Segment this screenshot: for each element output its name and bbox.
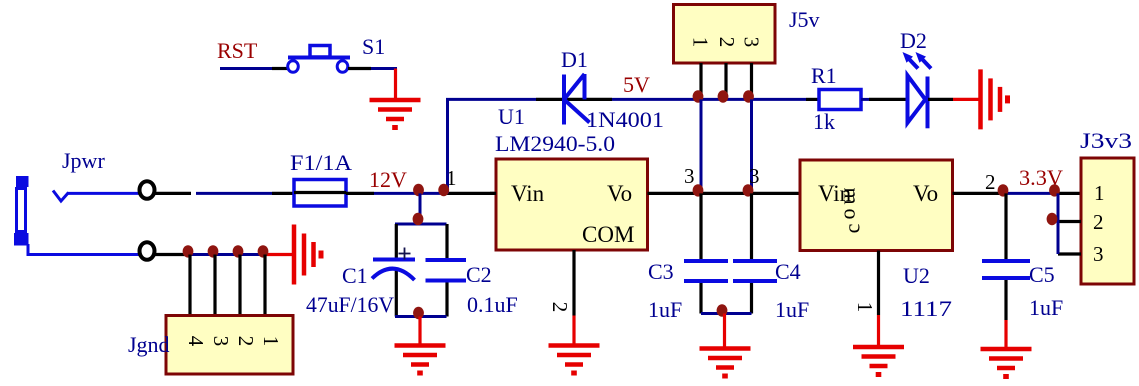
svg-text:3: 3 bbox=[749, 164, 760, 188]
ground (D2, rotated) bbox=[981, 69, 1008, 129]
svg-text:J5v: J5v bbox=[789, 7, 820, 32]
svg-text:o: o bbox=[840, 209, 865, 220]
svg-text:1: 1 bbox=[1094, 181, 1105, 205]
svg-text:Vo: Vo bbox=[913, 181, 938, 206]
connector Jpwr jack body bbox=[14, 176, 29, 246]
svg-text:3: 3 bbox=[684, 164, 695, 188]
wire J5v pin3 drop bbox=[750, 99, 753, 193]
J3v3 vertical tie wire bbox=[1057, 193, 1060, 254]
svg-text:R1: R1 bbox=[811, 63, 837, 88]
capacitor C2 branch wires bbox=[445, 224, 448, 260]
U1 left pin stub bbox=[490, 192, 496, 195]
wire J5v pin1 drop bbox=[700, 99, 703, 193]
svg-text:3: 3 bbox=[740, 37, 764, 48]
junction node (Vo rail / C4) bbox=[743, 184, 754, 196]
junction node (Vo rail / C3) bbox=[693, 184, 704, 196]
C1 plus sign bbox=[399, 248, 411, 260]
connector Jgnd box bbox=[166, 316, 293, 375]
ground (C5) bbox=[981, 349, 1032, 377]
junction node (Jgnd pin1) bbox=[258, 245, 269, 257]
svg-text:5V: 5V bbox=[623, 72, 650, 97]
svg-text:2: 2 bbox=[715, 37, 739, 48]
svg-text:F1/1A: F1/1A bbox=[290, 150, 352, 175]
J3v3 pin stubs bbox=[1058, 220, 1081, 223]
ground (U2) bbox=[853, 347, 904, 375]
svg-text:C5: C5 bbox=[1029, 262, 1055, 287]
ground (Jgnd row, rotated) bbox=[294, 225, 321, 285]
junction node (bottom bridge) bbox=[413, 307, 424, 319]
LED D2 bbox=[908, 75, 928, 128]
svg-text:U2: U2 bbox=[903, 263, 930, 288]
junction node (J3v3 pin2) bbox=[1047, 213, 1058, 225]
svg-text:1: 1 bbox=[259, 336, 283, 347]
wire bridge to ground bbox=[723, 314, 726, 350]
fuse F1 bbox=[294, 180, 346, 207]
capacitor C1 branch wires bbox=[395, 224, 398, 260]
ground (U1 COM) bbox=[549, 346, 600, 374]
connector J3v3 box bbox=[1081, 158, 1134, 284]
svg-text:47uF/16V: 47uF/16V bbox=[306, 292, 394, 317]
svg-text:Vin: Vin bbox=[511, 181, 545, 206]
svg-text:m: m bbox=[840, 187, 865, 204]
capacitor C4 bbox=[733, 261, 777, 281]
svg-text:C3: C3 bbox=[648, 259, 674, 284]
svg-text:C4: C4 bbox=[775, 259, 801, 284]
switch S1 bbox=[288, 46, 350, 73]
wire 12V riser to D1 bbox=[448, 99, 537, 193]
svg-text:2: 2 bbox=[548, 302, 572, 313]
junction node (C3/C4 bridge) bbox=[717, 304, 728, 316]
svg-text:1: 1 bbox=[689, 37, 713, 48]
svg-text:1117: 1117 bbox=[900, 296, 952, 321]
svg-text:Vo: Vo bbox=[607, 181, 632, 206]
wire switch to ground bbox=[348, 67, 371, 70]
wire into D1 bbox=[536, 98, 612, 101]
wire jack sleeve down and right bbox=[28, 244, 140, 255]
wire C1/C2 feed bbox=[419, 193, 422, 224]
ground (C3/C4) bbox=[700, 349, 751, 377]
wire C1/C2 top bridge bbox=[395, 223, 447, 226]
svg-text:0.1uF: 0.1uF bbox=[467, 292, 518, 317]
regulator U2 box bbox=[800, 160, 953, 251]
svg-text:2: 2 bbox=[985, 170, 996, 194]
capacitor C1 bbox=[372, 260, 415, 281]
junction node (top bridge) bbox=[413, 213, 424, 225]
capacitor C3 bbox=[684, 261, 728, 281]
wire D2 to ground bbox=[928, 98, 953, 101]
capacitor C2 bbox=[426, 260, 467, 281]
wire 5V to R1 bbox=[806, 98, 819, 101]
svg-text:1uF: 1uF bbox=[648, 297, 682, 322]
svg-text:c: c bbox=[840, 223, 865, 233]
LED D2 arrows bbox=[903, 52, 932, 69]
capacitor C3 wires bbox=[699, 193, 702, 261]
wire U2 Vo to J3v3 bbox=[953, 192, 1007, 195]
junction node (J5v pin3) bbox=[743, 90, 754, 102]
svg-text:S1: S1 bbox=[362, 34, 385, 59]
terminal circle bottom bbox=[140, 242, 155, 260]
svg-text:2: 2 bbox=[1093, 210, 1104, 234]
jack tip contact mark bbox=[53, 191, 69, 202]
wire terminal to fuse bbox=[155, 192, 191, 195]
diode D1 bbox=[564, 74, 590, 125]
wire C3/C4 bottom bridge bbox=[701, 312, 752, 315]
svg-text:C2: C2 bbox=[466, 262, 492, 287]
wire R1 to D2 bbox=[861, 98, 869, 101]
wire bridge to ground bbox=[418, 317, 421, 347]
junction node (J3v3 rail) bbox=[1049, 184, 1060, 196]
svg-text:1N4001: 1N4001 bbox=[586, 107, 664, 132]
junction node (12V riser) bbox=[438, 184, 449, 196]
svg-text:1uF: 1uF bbox=[775, 297, 809, 322]
U2 bottom pin wire bbox=[877, 251, 880, 316]
junction node (Jgnd pin3) bbox=[208, 245, 219, 257]
ground (S1) bbox=[370, 100, 421, 128]
svg-text:3: 3 bbox=[1093, 242, 1104, 266]
capacitor C4 wires bbox=[750, 193, 753, 261]
svg-text:U1: U1 bbox=[498, 104, 525, 129]
svg-text:D1: D1 bbox=[561, 47, 588, 72]
wire D1 to 5V rail bbox=[612, 98, 806, 101]
capacitor C5 wires bbox=[1004, 193, 1007, 261]
svg-text:12V: 12V bbox=[369, 167, 407, 192]
svg-text:2: 2 bbox=[234, 336, 258, 347]
svg-text:1uF: 1uF bbox=[1029, 295, 1063, 320]
svg-text:Jgnd: Jgnd bbox=[128, 332, 170, 357]
svg-text:1k: 1k bbox=[813, 109, 835, 134]
svg-text:Jpwr: Jpwr bbox=[62, 148, 105, 173]
wire bottom row to Jgnd bbox=[155, 253, 186, 256]
ground (C1/C2) bbox=[395, 346, 446, 374]
resistor R1 bbox=[819, 90, 861, 110]
svg-text:1: 1 bbox=[853, 302, 877, 313]
wire jack tip to terminal bbox=[67, 192, 140, 195]
junction node (J5v pin2) bbox=[718, 90, 729, 102]
capacitor C5 bbox=[982, 261, 1030, 278]
Jgnd pin wires bbox=[190, 255, 265, 317]
junction node (C5 branch) bbox=[998, 184, 1009, 196]
svg-text:COM: COM bbox=[582, 222, 634, 247]
svg-text:C1: C1 bbox=[342, 263, 368, 288]
svg-text:4: 4 bbox=[184, 336, 208, 347]
pin wires J5v bbox=[699, 63, 702, 98]
junction node (J5v pin1) bbox=[693, 90, 704, 102]
regulator U1 box bbox=[496, 159, 648, 250]
junction node (Jgnd pin2) bbox=[233, 245, 244, 257]
wire C1/C2 bottom bridge bbox=[395, 315, 447, 318]
svg-text:D2: D2 bbox=[900, 28, 927, 53]
svg-text:J3v3: J3v3 bbox=[1080, 128, 1132, 153]
wire fuse to U1 bbox=[346, 192, 374, 195]
junction node (Jgnd pin4) bbox=[183, 245, 194, 257]
U2 com text (rotated) bbox=[840, 187, 865, 233]
wire U1 Vo to U2 bbox=[648, 192, 801, 195]
terminal circle top bbox=[140, 181, 155, 199]
svg-text:RST: RST bbox=[217, 38, 258, 63]
wire RST to switch bbox=[220, 67, 272, 70]
connector J5v box bbox=[674, 5, 776, 64]
svg-text:LM2940-5.0: LM2940-5.0 bbox=[495, 131, 615, 156]
svg-text:3: 3 bbox=[209, 336, 233, 347]
U1 COM pin wire bbox=[572, 250, 575, 316]
junction node (12V/C1 branch) bbox=[413, 184, 424, 196]
